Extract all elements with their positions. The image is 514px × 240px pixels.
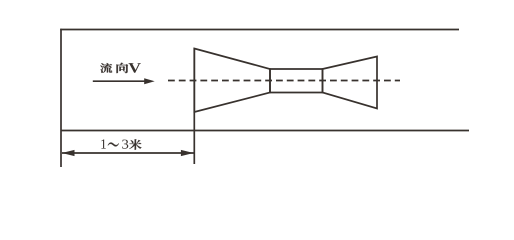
dashed centerline [168,80,400,82]
label 3 [122,140,128,149]
pipe bottom wall [61,130,470,132]
label 流 [100,63,112,73]
venturi left cone [194,49,270,113]
sensor front extension line [193,48,195,164]
label ~ [108,142,119,146]
label V [128,63,140,73]
pipe top wall [60,29,459,31]
label 1 [101,139,106,148]
dimension line [62,152,194,154]
dimension arrow left [62,150,75,156]
venturi throat rectangle [270,69,323,93]
dimension arrow right [181,150,194,156]
flow arrow head [144,78,155,84]
venturi right cone [323,57,378,109]
label 向 [117,63,129,73]
flow arrow shaft [93,80,146,82]
label 米 [129,139,141,150]
pipe left wall / left dimension extension line [60,29,62,167]
